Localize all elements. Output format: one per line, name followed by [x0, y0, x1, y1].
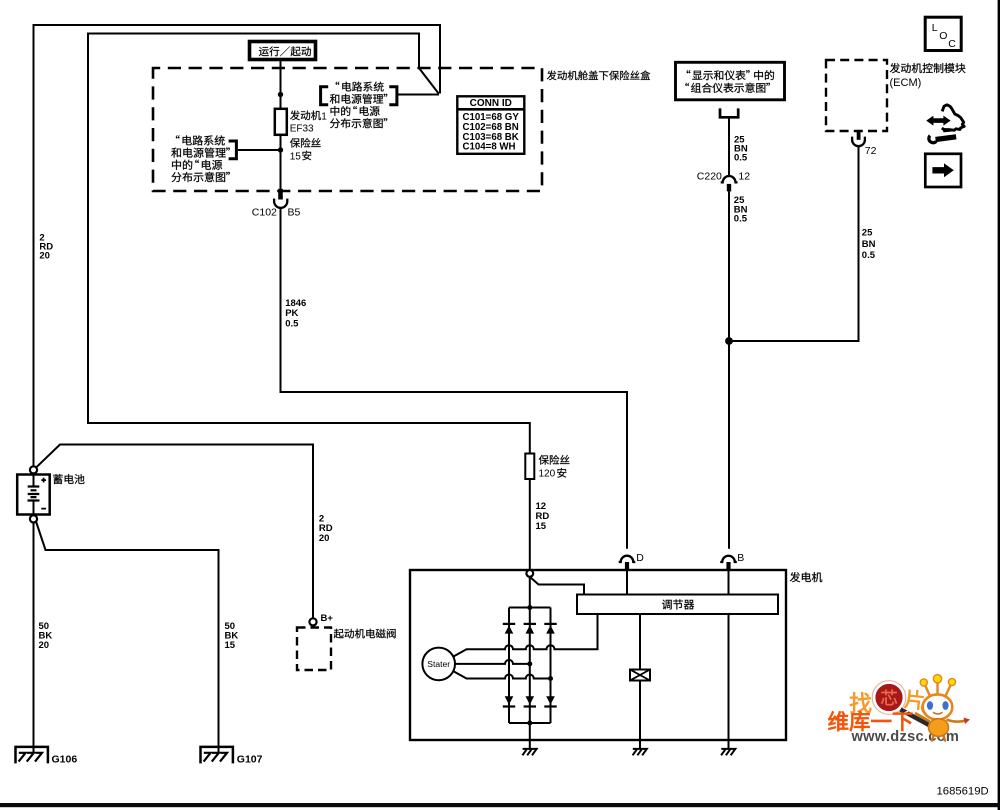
svg-text:Stater: Stater	[427, 659, 450, 669]
svg-text:B: B	[737, 552, 744, 564]
svg-text:O: O	[939, 30, 947, 42]
svg-text:1: 1	[321, 111, 327, 122]
svg-text:25: 25	[862, 228, 873, 239]
svg-text:20: 20	[39, 640, 50, 651]
svg-text:C: C	[948, 38, 956, 50]
svg-text:G106: G106	[52, 753, 78, 765]
svg-text:BN: BN	[862, 239, 876, 250]
svg-text:D: D	[636, 552, 644, 564]
svg-text:G107: G107	[237, 753, 263, 765]
svg-text:C104=8 WH: C104=8 WH	[463, 142, 516, 153]
svg-text:15: 15	[225, 640, 236, 651]
svg-text:72: 72	[865, 145, 877, 157]
svg-text:20: 20	[39, 251, 50, 262]
svg-text:12: 12	[738, 171, 750, 183]
svg-text:120: 120	[539, 469, 556, 480]
svg-text:C220: C220	[697, 171, 722, 183]
svg-text:1685619D: 1685619D	[937, 785, 989, 797]
svg-text:C102: C102	[252, 206, 277, 218]
svg-text:0.5: 0.5	[734, 153, 748, 164]
svg-text:15: 15	[536, 521, 547, 532]
svg-text:L: L	[932, 22, 938, 34]
svg-text:0.5: 0.5	[862, 250, 876, 261]
svg-text:B+: B+	[321, 613, 334, 624]
svg-text:0.5: 0.5	[734, 214, 748, 225]
svg-text:20: 20	[319, 533, 330, 544]
svg-text:EF33: EF33	[290, 124, 314, 135]
svg-text:(ECM): (ECM)	[890, 77, 922, 89]
svg-text:CONN ID: CONN ID	[470, 98, 512, 109]
svg-text:0.5: 0.5	[285, 318, 299, 329]
svg-text:15: 15	[290, 151, 302, 162]
svg-text:B5: B5	[288, 206, 301, 218]
